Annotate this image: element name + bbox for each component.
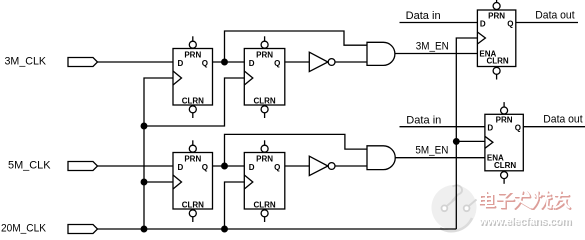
wire branch to U3 clock — [144, 181, 173, 183]
svg-text:CLRN: CLRN — [486, 57, 508, 66]
wire U1 Q to AND1 top input — [225, 31, 368, 62]
AND gate AND2 — [367, 146, 395, 170]
wire U5 Q to Data out — [516, 22, 578, 24]
svg-text:D: D — [178, 59, 184, 68]
wire U3 Q to AND2 top input — [225, 134, 368, 166]
junction bus-U3-clock — [141, 179, 147, 185]
svg-text:www.elecfans.com: www.elecfans.com — [478, 216, 571, 228]
junction bus-rail — [141, 226, 147, 232]
svg-text:Q: Q — [274, 59, 280, 68]
svg-text:PRN: PRN — [256, 51, 273, 60]
svg-text:PRN: PRN — [488, 11, 505, 20]
wire Data in to U5 D — [400, 22, 478, 24]
svg-text:D: D — [178, 163, 184, 172]
watermark text 电子发烧友 (embossed strokes) — [480, 192, 570, 209]
input pin 3M_CLK — [68, 58, 98, 67]
svg-text:D: D — [480, 19, 486, 28]
watermark text www.elecfans.com (embossed) — [478, 216, 573, 229]
wire U4 Q to inverter INV2 — [285, 165, 310, 167]
U1 pin labels — [178, 51, 209, 106]
inverter INV1 — [309, 52, 335, 71]
svg-text:PRN: PRN — [256, 155, 273, 164]
svg-text:Q: Q — [515, 124, 521, 133]
inverter INV2 — [309, 156, 335, 175]
AND gate AND1 — [367, 42, 395, 65]
svg-text:CLRN: CLRN — [182, 200, 204, 209]
wire 20M_CLK riser to right flip-flop clocks — [456, 38, 477, 229]
D flip-flop with enable U5 — [477, 0, 515, 80]
svg-text:20M_CLK: 20M_CLK — [1, 223, 47, 235]
D flip-flop with enable U6 — [485, 102, 523, 184]
svg-text:PRN: PRN — [184, 51, 201, 60]
svg-text:D: D — [487, 124, 493, 133]
wire AND1 out 3M_EN to U5 ENA — [395, 53, 478, 55]
wire branch to U4 clock — [225, 182, 245, 229]
wire AND2 out 5M_EN to U6 ENA — [395, 157, 485, 159]
svg-text:Q: Q — [202, 59, 208, 68]
wire branch to U6 clock — [456, 140, 485, 142]
wire U1 Q to U2 D — [213, 61, 245, 63]
D flip-flop U1 — [173, 36, 213, 118]
wire 5M_CLK to U3 D — [98, 165, 174, 167]
svg-text:Data out: Data out — [535, 9, 574, 21]
D flip-flop U3 — [173, 140, 213, 222]
wire INV2 out to AND2 lower input — [335, 165, 367, 167]
svg-text:CLRN: CLRN — [253, 200, 275, 209]
junction bus-U2-clock — [141, 123, 147, 129]
svg-text:Q: Q — [507, 19, 513, 28]
wire U6 Q to Data out — [523, 126, 585, 128]
svg-text:5M_EN: 5M_EN — [415, 145, 448, 157]
input pin 5M_CLK — [68, 162, 98, 171]
U4 pin labels — [249, 155, 280, 210]
svg-text:Q: Q — [202, 163, 208, 172]
svg-text:3M_CLK: 3M_CLK — [5, 56, 47, 68]
wire Data in to U6 D — [400, 126, 485, 128]
wire branch to U2 clock — [144, 78, 244, 126]
junction U1 Q node — [222, 59, 228, 65]
svg-text:D: D — [249, 163, 255, 172]
svg-text:Data in: Data in — [406, 114, 441, 126]
svg-text:CLRN: CLRN — [253, 96, 275, 105]
svg-text:Data in: Data in — [406, 10, 441, 22]
U5 pin labels — [479, 11, 513, 65]
junction U3 Q node — [222, 163, 228, 169]
svg-text:PRN: PRN — [496, 116, 513, 125]
svg-text:D: D — [249, 59, 255, 68]
D flip-flop U2 — [244, 36, 284, 118]
wire INV1 out to AND1 lower input — [335, 61, 367, 63]
wire 20M_CLK bus riser left — [144, 78, 173, 229]
input pin 20M_CLK — [68, 225, 98, 234]
U6 pin labels — [487, 116, 521, 170]
junction rail-U4-clock — [222, 226, 228, 232]
junction riser-U6-clock — [454, 139, 460, 145]
svg-text:3M_EN: 3M_EN — [416, 40, 449, 52]
watermark logo elecfans — [432, 185, 477, 231]
D flip-flop U4 — [244, 140, 284, 222]
wire 3M_CLK to U1 D — [98, 61, 174, 63]
wire U3 Q to U4 D — [213, 165, 245, 167]
svg-text:CLRN: CLRN — [182, 96, 204, 105]
svg-text:PRN: PRN — [184, 155, 201, 164]
svg-text:5M_CLK: 5M_CLK — [8, 160, 51, 172]
svg-text:CLRN: CLRN — [494, 161, 516, 170]
wire 20M_CLK rail — [98, 228, 457, 230]
svg-text:Q: Q — [274, 163, 280, 172]
U2 pin labels — [249, 51, 280, 106]
wire U2 Q to inverter INV1 — [285, 61, 310, 63]
U3 pin labels — [178, 155, 209, 210]
svg-text:Data out: Data out — [543, 114, 582, 126]
